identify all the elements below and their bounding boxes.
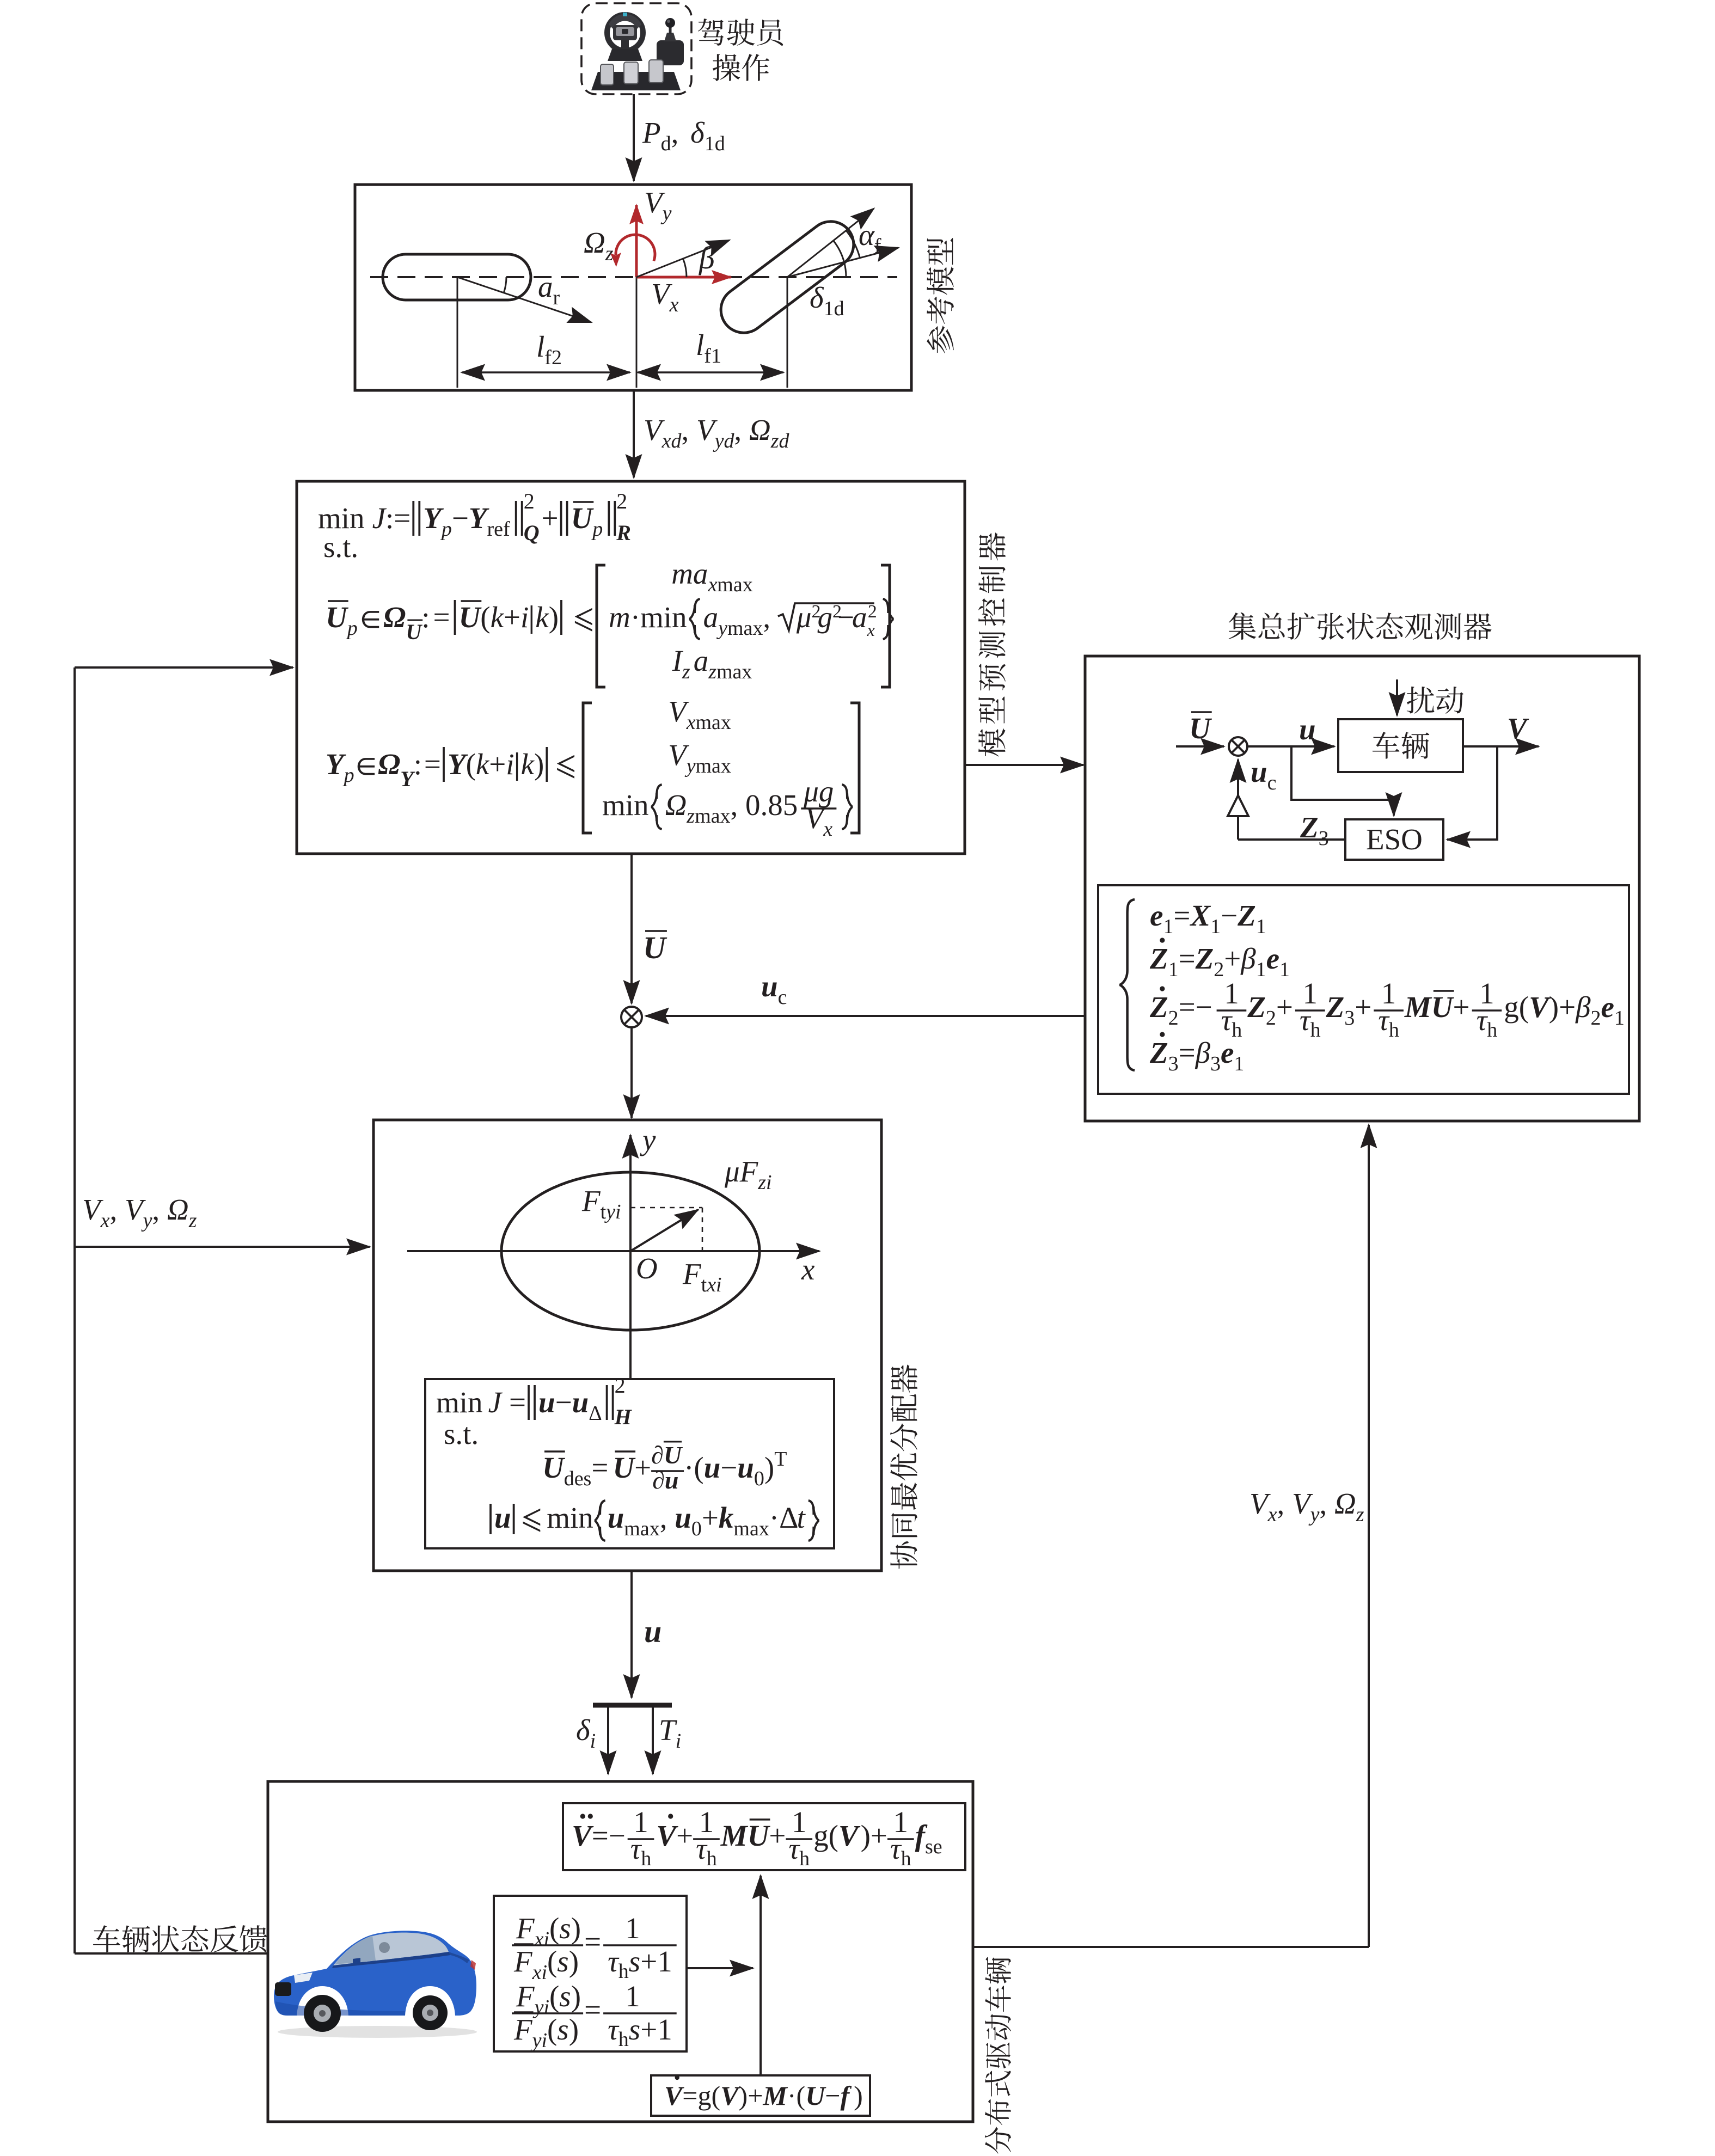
wire feedback bottom horizontal — [75, 1952, 268, 1955]
wire amplifier to mult node — [1237, 759, 1239, 795]
svg-text:·: · — [684, 1451, 694, 1484]
svg-text:(: ( — [829, 1819, 838, 1852]
svg-text:): ) — [861, 1819, 871, 1852]
dimension l_f2 — [462, 371, 630, 373]
svg-text:xd: xd — [661, 430, 682, 452]
svg-text:U: U — [748, 1819, 771, 1852]
svg-text:Ω: Ω — [584, 226, 605, 259]
wire u to junction bar — [630, 1571, 633, 1698]
svg-text:V: V — [838, 1819, 861, 1852]
svg-text:=: = — [433, 601, 450, 634]
svg-text:U: U — [805, 2080, 826, 2111]
distributed vehicle box — [268, 1781, 973, 2122]
svg-text:s: s — [629, 1945, 640, 1978]
svg-text:Z: Z — [1195, 942, 1214, 975]
svg-text:1: 1 — [1168, 958, 1179, 981]
ESO mult node — [1229, 737, 1247, 756]
svg-text:k: k — [719, 1501, 734, 1534]
svg-text:τ: τ — [1300, 1003, 1312, 1037]
svg-text:s: s — [629, 2013, 640, 2046]
svg-text:τ: τ — [1378, 1003, 1390, 1037]
svg-text:i: i — [542, 2029, 548, 2052]
svg-text:τ: τ — [608, 1945, 620, 1978]
svg-text:=−: =− — [1179, 990, 1212, 1024]
wire feedback left vertical — [73, 667, 76, 1953]
wire right feedback horizontal — [973, 1946, 1369, 1948]
svg-text:f2: f2 — [544, 346, 562, 369]
wire mult node to allocator — [630, 1028, 633, 1118]
svg-text:i: i — [615, 1200, 621, 1223]
svg-text:x: x — [534, 1928, 544, 1951]
svg-text:u: u — [761, 970, 778, 1003]
svg-text:(: ( — [547, 1945, 557, 1978]
svg-text:s: s — [559, 1980, 571, 2013]
svg-text:g: g — [698, 2080, 712, 2111]
allocator formula box — [425, 1379, 834, 1548]
svg-text:): ) — [1549, 990, 1559, 1024]
svg-text:i: i — [506, 748, 514, 781]
Vy axis red arrow — [635, 205, 638, 277]
svg-text:min: min — [436, 1386, 483, 1419]
ESO equations brace — [1119, 899, 1135, 1070]
svg-text:k: k — [535, 601, 549, 634]
svg-text:z: z — [188, 1209, 197, 1232]
ESO title — [1229, 612, 1492, 640]
svg-text::: : — [414, 748, 422, 781]
svg-text:): ) — [569, 2013, 579, 2046]
label reference model rotated — [927, 238, 954, 353]
svg-text:V: V — [1529, 990, 1551, 1024]
alpha_f arcs — [834, 241, 844, 262]
beta arrow — [636, 240, 730, 277]
svg-text:F: F — [516, 1980, 535, 2013]
wire right feedback vertical — [1368, 1125, 1370, 1947]
svg-text:i: i — [542, 1961, 548, 1984]
svg-text:β: β — [1195, 1036, 1211, 1069]
svg-text:Ω: Ω — [665, 788, 687, 822]
svg-text:Δ: Δ — [779, 1501, 798, 1534]
svg-text:u: u — [1299, 713, 1316, 746]
svg-text:H: H — [614, 1405, 633, 1429]
svg-text:s.t.: s.t. — [444, 1417, 479, 1450]
svg-text:,: , — [671, 116, 687, 149]
svg-text:g: g — [818, 601, 833, 634]
svg-text:g: g — [813, 1819, 829, 1852]
svg-text:, 0.85: , 0.85 — [731, 788, 798, 822]
svg-text:,: , — [1319, 1487, 1334, 1520]
svg-text:V: V — [664, 2080, 684, 2111]
svg-text:+: + — [489, 748, 506, 781]
wire T_i — [652, 1707, 654, 1774]
bracket right for Y constraint — [850, 703, 859, 833]
svg-text:+1: +1 — [640, 1945, 672, 1978]
svg-text:+: + — [1355, 990, 1371, 1024]
svg-text:u: u — [737, 1451, 754, 1484]
svg-text:(: ( — [480, 601, 490, 634]
svg-text:δ: δ — [810, 281, 824, 314]
svg-text:U: U — [664, 1441, 683, 1469]
label driver operation — [698, 19, 783, 81]
svg-text:c: c — [1267, 771, 1277, 794]
svg-text:+: + — [1224, 942, 1241, 975]
wire vehicle output V — [1463, 745, 1539, 748]
svg-text:s: s — [557, 2013, 568, 2046]
origin vertical line — [636, 277, 638, 388]
svg-text:ESO: ESO — [1366, 823, 1423, 856]
svg-text:,: , — [110, 1193, 125, 1226]
svg-text:3: 3 — [1168, 1052, 1179, 1075]
front wheel axis arrow — [787, 209, 874, 277]
svg-text:max: max — [717, 573, 752, 596]
svg-text:z: z — [605, 242, 614, 265]
steering wheel icon — [607, 13, 643, 61]
svg-text:Z: Z — [1149, 942, 1168, 975]
svg-text:+: + — [542, 501, 559, 535]
svg-text:a: a — [852, 601, 867, 634]
wire MPC to ESO — [965, 764, 1083, 766]
svg-text:F: F — [682, 1257, 702, 1290]
svg-text:h: h — [901, 1847, 911, 1870]
svg-text:β: β — [1575, 990, 1591, 1024]
svg-text:y: y — [660, 202, 672, 225]
svg-text:(: ( — [797, 2080, 806, 2111]
svg-text:+: + — [1276, 990, 1293, 1024]
svg-text:u: u — [572, 1386, 589, 1419]
svg-text:s: s — [559, 1912, 571, 1945]
svg-text:x: x — [708, 573, 718, 596]
svg-text:Z: Z — [1247, 990, 1266, 1024]
svg-text:β: β — [699, 240, 715, 275]
svg-text:2: 2 — [524, 489, 535, 513]
svg-text:3: 3 — [1344, 1007, 1355, 1030]
delta_1d arc — [844, 262, 846, 277]
wire Ubar from MPC to mult node — [630, 854, 633, 1003]
svg-text:3: 3 — [1319, 827, 1329, 850]
svg-text:1: 1 — [1210, 915, 1221, 938]
svg-text:u: u — [494, 1501, 511, 1534]
svg-text:,: , — [152, 1193, 167, 1226]
svg-text:1: 1 — [625, 1980, 640, 2013]
svg-text:max: max — [695, 805, 730, 828]
svg-text:−: − — [1221, 899, 1238, 932]
yaw rate red arc — [616, 235, 655, 261]
svg-text:max: max — [696, 755, 731, 777]
dimension l_f1 — [638, 371, 783, 373]
svg-text:Q: Q — [524, 520, 540, 545]
svg-text:2: 2 — [868, 602, 877, 622]
svg-text:u: u — [675, 1501, 691, 1534]
svg-text:u: u — [1251, 755, 1267, 788]
svg-text:): ) — [534, 748, 544, 781]
svg-text:1: 1 — [1256, 915, 1266, 938]
svg-text:M: M — [1404, 990, 1432, 1024]
svg-text:Δ: Δ — [589, 1402, 602, 1425]
svg-text:2: 2 — [616, 489, 627, 513]
svg-text:μ: μ — [796, 601, 812, 634]
svg-text:,: , — [1277, 1487, 1293, 1520]
svg-text:h: h — [641, 1847, 651, 1870]
svg-text:): ) — [739, 2080, 748, 2111]
svg-text:3: 3 — [1210, 1052, 1221, 1075]
dashed projection horizontal — [630, 1207, 702, 1209]
svg-text:F: F — [513, 2013, 533, 2046]
vehicle centerline dashed — [370, 276, 897, 278]
svg-text:,: , — [734, 413, 749, 446]
svg-text:k: k — [491, 601, 505, 634]
svg-text:1: 1 — [1279, 958, 1290, 981]
svg-text:l: l — [536, 330, 544, 363]
svg-text:x: x — [706, 1273, 716, 1296]
svg-text:y: y — [530, 2029, 542, 2052]
svg-text:Z: Z — [1149, 990, 1168, 1024]
wire state into allocator — [75, 1246, 370, 1248]
svg-text:=: = — [682, 2080, 697, 2111]
wire TF to vertical — [687, 1967, 753, 1969]
label disturbance — [1407, 687, 1463, 714]
svg-text:s.t.: s.t. — [323, 530, 358, 563]
wire u branch down to ESO — [1291, 746, 1394, 816]
svg-text:J: J — [372, 501, 387, 535]
svg-text:min: min — [602, 788, 649, 822]
svg-text:β: β — [1240, 942, 1256, 975]
svg-text:+: + — [769, 1819, 786, 1852]
svg-text:des: des — [564, 1467, 592, 1490]
wire Pd to reference model — [633, 94, 635, 181]
svg-text:z: z — [686, 805, 695, 828]
svg-text:): ) — [571, 1980, 581, 2013]
svg-text:1: 1 — [1614, 1007, 1625, 1030]
rear axle vertical line — [457, 277, 458, 388]
svg-text:δ: δ — [690, 116, 705, 149]
svg-text:2: 2 — [1591, 1007, 1601, 1030]
svg-text:f1: f1 — [704, 345, 721, 367]
svg-text:a: a — [703, 601, 719, 634]
svg-text:T: T — [659, 1713, 677, 1747]
svg-text:τ: τ — [788, 1832, 800, 1865]
svg-text:p: p — [342, 764, 354, 787]
svg-text:z: z — [1356, 1503, 1364, 1526]
svg-text:P: P — [642, 116, 661, 149]
Vx axis red arrow — [636, 276, 731, 279]
svg-text:max: max — [733, 1517, 769, 1540]
svg-text:h: h — [707, 1847, 717, 1870]
svg-text:(: ( — [712, 2080, 721, 2111]
force vector arrow — [630, 1210, 698, 1251]
svg-text:ma: ma — [671, 557, 708, 590]
svg-text:+: + — [871, 1819, 887, 1852]
svg-text:,: , — [660, 1501, 675, 1534]
svg-text:): ) — [569, 1945, 579, 1978]
svg-text:i: i — [590, 1730, 596, 1753]
svg-text:F: F — [581, 1184, 601, 1217]
svg-text:F: F — [516, 1912, 535, 1945]
svg-text:Ω: Ω — [167, 1193, 189, 1226]
svg-text:(: ( — [466, 748, 476, 781]
wire node to vehicle block — [1247, 745, 1334, 748]
svg-text:(: ( — [549, 1980, 559, 2013]
ellipse x axis — [407, 1250, 819, 1252]
svg-text:(: ( — [549, 1912, 559, 1945]
svg-text:r: r — [553, 286, 560, 309]
svg-text:J: J — [488, 1386, 503, 1419]
svg-text:V: V — [656, 1819, 678, 1852]
svg-text:μF: μF — [724, 1155, 759, 1188]
svg-text:k: k — [521, 748, 535, 781]
svg-text:U: U — [1189, 712, 1212, 745]
Vddot equation box — [563, 1803, 965, 1870]
svg-text:f: f — [874, 235, 881, 258]
front wheel — [712, 212, 862, 342]
svg-text:d: d — [661, 132, 671, 155]
pedals icon — [591, 60, 681, 90]
svg-text:u: u — [608, 1501, 624, 1534]
svg-text:h: h — [1487, 1019, 1497, 1042]
svg-text:+: + — [748, 2080, 763, 2111]
svg-text:0: 0 — [754, 1467, 764, 1490]
svg-text:=: = — [591, 1451, 608, 1484]
svg-text:max: max — [624, 1517, 659, 1540]
svg-text:O: O — [636, 1252, 658, 1285]
svg-text:2: 2 — [1266, 1007, 1276, 1030]
svg-text:min: min — [318, 501, 365, 535]
wire Ubar to ESO mult node — [1176, 745, 1224, 748]
svg-text:l: l — [696, 328, 704, 362]
svg-text:0: 0 — [691, 1517, 702, 1540]
svg-text:=−: =− — [592, 1819, 626, 1852]
svg-text:m: m — [609, 601, 630, 634]
svg-text:=: = — [584, 1993, 601, 2026]
svg-text:Y: Y — [423, 501, 444, 535]
svg-text:x: x — [823, 818, 832, 841]
svg-text:,: , — [763, 601, 778, 634]
svg-text:y: y — [1308, 1503, 1320, 1526]
svg-text:k: k — [476, 748, 490, 781]
svg-text:a: a — [538, 270, 553, 303]
svg-text:·: · — [630, 601, 640, 634]
svg-text:V: V — [572, 1819, 594, 1852]
svg-text:Y: Y — [448, 748, 468, 781]
svg-text:Ω: Ω — [749, 413, 771, 446]
allocator box — [373, 1120, 881, 1571]
svg-text:e: e — [1266, 942, 1279, 975]
matrix bracket right for U constraint — [881, 565, 890, 687]
svg-text:−: − — [452, 501, 469, 535]
bracket left for Y constraint — [583, 703, 592, 833]
svg-text:+: + — [1559, 990, 1576, 1024]
svg-text:u: u — [538, 1386, 555, 1419]
svg-text:x: x — [100, 1209, 110, 1232]
svg-text:−: − — [555, 1386, 572, 1419]
svg-text:max: max — [696, 711, 731, 734]
svg-text:2: 2 — [615, 1373, 626, 1398]
junction bar — [593, 1703, 672, 1708]
svg-text:min: min — [547, 1501, 593, 1534]
svg-text:δ: δ — [576, 1713, 591, 1747]
svg-text:c: c — [778, 986, 787, 1009]
svg-text:U: U — [459, 601, 482, 634]
svg-text:s: s — [557, 1945, 568, 1978]
svg-text:=: = — [1179, 942, 1196, 975]
matrix bracket left for U constraint — [597, 565, 605, 687]
svg-text:t: t — [701, 1273, 707, 1296]
svg-text:V: V — [1507, 712, 1529, 745]
svg-text:y: y — [141, 1209, 152, 1232]
svg-text:z: z — [708, 660, 716, 683]
svg-text:t: t — [601, 1200, 607, 1223]
svg-text:U: U — [612, 1451, 636, 1484]
svg-text:e: e — [1150, 899, 1163, 932]
rear wheel — [383, 254, 531, 300]
svg-text:i: i — [716, 1273, 722, 1296]
svg-text:e: e — [1221, 1036, 1234, 1069]
svg-text:e: e — [1601, 990, 1614, 1024]
svg-text:,: , — [682, 413, 697, 446]
svg-text:y: y — [532, 1996, 544, 2019]
wire uc into mult node — [646, 1015, 1085, 1017]
svg-text:h: h — [1389, 1019, 1399, 1042]
svg-text:τ: τ — [696, 1832, 708, 1865]
svg-text:Ω: Ω — [383, 601, 406, 634]
svg-text:x: x — [686, 711, 696, 734]
svg-text:T: T — [774, 1448, 787, 1471]
svg-text:z: z — [682, 660, 690, 683]
svg-text:): ) — [571, 1912, 581, 1945]
svg-text:U: U — [643, 930, 667, 965]
blue car image — [274, 1931, 477, 2038]
wire V branch down to ESO — [1447, 746, 1497, 840]
svg-text:u: u — [704, 1451, 721, 1484]
svg-text:t: t — [797, 1501, 806, 1534]
svg-text:α: α — [859, 218, 875, 252]
svg-text:2: 2 — [1214, 958, 1224, 981]
multiplier node — [621, 1007, 642, 1027]
rear slip angle arrow a_r — [457, 277, 591, 322]
svg-text:min: min — [640, 601, 687, 634]
svg-text:+1: +1 — [640, 2013, 672, 2046]
label distributed drive vehicle rotated — [985, 1957, 1011, 2154]
svg-text:=: = — [1179, 1036, 1196, 1069]
svg-text:=: = — [1173, 899, 1190, 932]
label vehicle state feedback — [93, 1925, 267, 1952]
svg-text:=: = — [509, 1386, 526, 1419]
ESO observer outer box — [1085, 656, 1639, 1121]
svg-text:Z: Z — [1326, 990, 1345, 1024]
svg-text:x: x — [801, 1253, 815, 1286]
rear slip angle arc — [504, 277, 506, 293]
svg-text:zi: zi — [757, 1171, 771, 1194]
svg-text:i: i — [676, 1730, 682, 1753]
svg-text:=: = — [584, 1925, 601, 1958]
svg-text:M: M — [762, 2080, 788, 2111]
svg-text:−: − — [720, 1451, 737, 1484]
svg-text:1: 1 — [1256, 958, 1266, 981]
svg-text:R: R — [616, 520, 631, 545]
MPC box — [297, 481, 965, 854]
svg-text:h: h — [618, 2028, 629, 2051]
front axle vertical line — [787, 277, 788, 388]
svg-text:·: · — [769, 1501, 779, 1534]
svg-text:Z: Z — [1237, 899, 1256, 932]
svg-text:+: + — [1453, 990, 1470, 1024]
reference model box — [355, 185, 911, 390]
svg-text:zd: zd — [770, 430, 790, 452]
svg-text:U: U — [1431, 990, 1455, 1024]
svg-text:(: ( — [547, 2013, 557, 2046]
ESO block — [1345, 819, 1443, 860]
svg-text:2: 2 — [1168, 1007, 1179, 1030]
svg-text:h: h — [1310, 1019, 1321, 1042]
svg-text:(: ( — [1519, 990, 1529, 1024]
